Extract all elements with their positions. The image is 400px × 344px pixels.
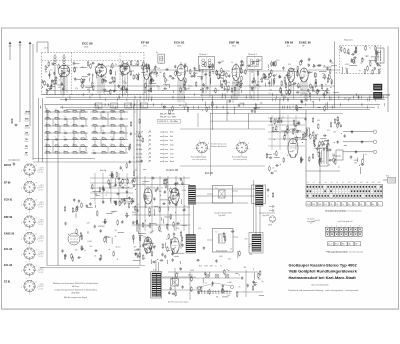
svg-text:5,9-7,4: 5,9-7,4 (25, 121, 29, 123)
junction (84, 111, 87, 114)
junction (238, 88, 241, 91)
bus crossing ticks (40, 93, 384, 109)
resistor (298, 83, 300, 89)
dial cord pulley 2 (230, 285, 233, 288)
svg-text:g2 85 V: g2 85 V (39, 286, 44, 288)
wire (118, 231, 124, 233)
capacitor (130, 132, 132, 136)
svg-text:220: 220 (95, 67, 98, 69)
wire (106, 238, 108, 243)
tube V7 out (288, 139, 298, 158)
junction (273, 138, 276, 141)
resistor (312, 117, 314, 123)
junction (147, 199, 150, 202)
resistor (254, 107, 256, 113)
capacitor (81, 81, 85, 83)
resistor (283, 157, 285, 163)
svg-text:2k: 2k (336, 72, 338, 74)
resistor (144, 194, 146, 200)
capacitor (13, 162, 15, 166)
wire (328, 74, 330, 78)
junction (87, 230, 90, 233)
resistor (234, 86, 236, 92)
junction (155, 75, 158, 78)
capacitor (124, 67, 128, 69)
svg-text:100: 100 (194, 68, 197, 70)
capacitor (46, 138, 50, 140)
resistor (319, 159, 321, 165)
resistor (180, 231, 182, 237)
capacitor (317, 64, 321, 66)
wire (251, 69, 253, 73)
capacitor (296, 130, 298, 134)
svg-text:2k: 2k (94, 256, 96, 258)
capacitor (184, 63, 186, 67)
junction (320, 83, 323, 86)
wire (98, 225, 105, 227)
wire (346, 69, 348, 74)
capacitor (77, 256, 81, 258)
resistor (297, 66, 299, 72)
svg-text:30p: 30p (55, 109, 57, 111)
svg-text:Ta1: Ta1 (96, 106, 99, 108)
wire (190, 269, 194, 271)
capacitor (182, 209, 186, 211)
wire tube pin (288, 82, 290, 96)
resistor (216, 70, 218, 76)
junction (223, 89, 226, 92)
wire interconnect h4 (240, 70, 286, 72)
wire right edge (387, 46, 389, 112)
dial scale ticks (197, 290, 232, 294)
junction (139, 245, 142, 248)
resistor (212, 63, 214, 69)
wire interconnect h2 (150, 69, 177, 71)
wire inter-row (113, 133, 115, 140)
resistor (143, 61, 145, 67)
svg-text:a10: a10 (360, 182, 363, 184)
svg-text:47k: 47k (327, 130, 330, 132)
svg-text:a 170 V: a 170 V (39, 167, 44, 169)
wire inter-row (85, 133, 87, 140)
resistor (58, 64, 60, 70)
resistor (273, 79, 275, 85)
svg-text:150-350: 150-350 (25, 135, 30, 137)
resistor (221, 68, 223, 74)
capacitor (144, 65, 148, 67)
capacitor (252, 80, 254, 84)
junction (94, 103, 97, 106)
resistor (370, 61, 372, 67)
svg-text:0,1: 0,1 (125, 187, 127, 189)
junction (270, 219, 273, 222)
svg-text:5k: 5k (239, 287, 241, 289)
junction (105, 194, 108, 197)
resistor (372, 69, 374, 75)
svg-text:a2: a2 (313, 182, 315, 184)
svg-text:0,5M: 0,5M (345, 52, 349, 54)
wire (296, 130, 301, 132)
svg-text:100: 100 (354, 162, 357, 164)
capacitor (115, 183, 117, 187)
svg-text:100: 100 (258, 278, 261, 280)
capacitor (176, 70, 178, 74)
resistor (112, 63, 114, 69)
resistor (231, 87, 233, 93)
junction (199, 88, 202, 91)
resistor (327, 139, 329, 145)
resistor (149, 223, 151, 229)
capacitor (298, 122, 300, 126)
wire (240, 102, 245, 104)
wire (313, 101, 315, 108)
junction (162, 105, 165, 108)
junction (134, 188, 137, 191)
wire (225, 80, 227, 87)
amp wiring grid (132, 176, 190, 231)
output terminal A (373, 130, 376, 133)
wire inter-row (125, 126, 127, 133)
wire (231, 68, 236, 70)
wire (188, 85, 192, 87)
capacitor (251, 110, 253, 114)
junction (248, 245, 251, 248)
junction (39, 106, 42, 109)
svg-text:Großsuper Kassini-Stereo Typ 4: Großsuper Kassini-Stereo Typ 4002 (289, 263, 358, 268)
wire (173, 90, 175, 93)
wire between output stages 3 (196, 202, 248, 204)
junction (271, 220, 274, 223)
svg-text:Alle Messungen ohne Signal: Alle Messungen ohne Signal (64, 296, 87, 299)
svg-text:220: 220 (228, 258, 231, 260)
wire (114, 84, 116, 92)
wire (236, 70, 238, 78)
svg-text:EABC 80: EABC 80 (4, 233, 15, 236)
wire (331, 81, 333, 84)
svg-text:Ta3: Ta3 (126, 106, 129, 108)
svg-text:Lack: Lack (170, 157, 174, 159)
far left marks B (8, 159, 20, 161)
resistor (150, 87, 152, 93)
svg-text:(von oben gesehen): (von oben gesehen) (348, 210, 363, 212)
svg-text:1n: 1n (74, 211, 76, 213)
capacitor (374, 67, 376, 71)
svg-text:k 2,1 V: k 2,1 V (39, 289, 44, 291)
svg-text:1n: 1n (165, 85, 167, 87)
junction (372, 93, 375, 96)
wire (141, 72, 145, 74)
resistor (87, 61, 89, 67)
capacitor (164, 88, 168, 90)
resistor (218, 74, 220, 80)
junction (305, 98, 308, 101)
wire (291, 71, 299, 73)
junction (58, 125, 61, 128)
resistor (134, 205, 136, 211)
wire (197, 75, 203, 77)
svg-text:g2 85 V: g2 85 V (39, 270, 44, 272)
svg-text:UKW: UKW (307, 204, 311, 206)
svg-text:0,5M: 0,5M (291, 69, 295, 71)
capacitor (170, 287, 172, 291)
svg-text:1n: 1n (322, 90, 324, 92)
svg-text:„Mit Taste“: „Mit Taste“ (72, 285, 80, 288)
junction (273, 219, 276, 222)
resistor (154, 68, 156, 74)
junction (41, 85, 44, 88)
wire (220, 80, 222, 87)
resistor (100, 254, 102, 260)
wire (188, 274, 193, 276)
wire (75, 79, 80, 81)
filter network box F1 (320, 148, 329, 166)
wire (174, 255, 179, 257)
svg-text:Hö: Hö (360, 204, 362, 206)
resistor (326, 88, 328, 94)
capacitor (134, 253, 138, 255)
wire (235, 273, 238, 275)
wire (151, 259, 153, 264)
transformer lead right (162, 276, 197, 278)
wire (296, 69, 298, 77)
wire (110, 198, 112, 202)
junction (80, 246, 83, 249)
capacitor (208, 66, 212, 68)
capacitor (338, 121, 340, 125)
svg-text:2k: 2k (137, 204, 139, 206)
capacitor (164, 190, 166, 194)
resistor (224, 269, 226, 275)
junction (340, 132, 343, 135)
capacitor (265, 75, 267, 79)
waveband switch bank (25, 109, 129, 157)
wire (342, 67, 344, 74)
junction (114, 152, 117, 155)
svg-text:VEB Goldpfeil Rundfunkgerätewe: VEB Goldpfeil Rundfunkgerätewerk (289, 268, 358, 273)
resistor (111, 172, 113, 178)
resistor (376, 50, 378, 56)
capacitor (212, 282, 214, 286)
capacitor (102, 132, 106, 134)
resistor (55, 79, 57, 85)
junction (204, 101, 207, 104)
junction (267, 68, 270, 71)
capacitor (307, 89, 309, 93)
capacitor (47, 83, 49, 87)
junction (92, 82, 95, 85)
svg-text:2k: 2k (272, 167, 274, 169)
junction (256, 60, 259, 63)
junction (76, 138, 79, 141)
wire below switch bank (33, 161, 140, 163)
capacitor (174, 182, 176, 186)
resistor (146, 67, 148, 73)
resistor (115, 200, 117, 206)
resistor (181, 236, 183, 242)
tube V9a (144, 237, 152, 253)
junction (76, 111, 79, 114)
IF transformer Bd1 (198, 56, 214, 69)
junction (245, 96, 248, 99)
transformer winding (striped) (157, 273, 161, 297)
capacitor (317, 89, 319, 93)
svg-text:Typ 4002: Typ 4002 (218, 215, 225, 217)
svg-text:1: 1 (209, 149, 210, 151)
tube V9b (171, 238, 179, 254)
wire tube pin (293, 82, 295, 99)
capacitor (181, 182, 183, 186)
resistor (344, 48, 346, 54)
resistor (131, 199, 133, 205)
svg-text:Export-Modell: Export-Modell (216, 249, 228, 252)
capacitor (181, 285, 183, 289)
resistor (142, 137, 144, 143)
svg-text:25p: 25p (134, 222, 137, 224)
junction (323, 96, 326, 99)
wire (371, 56, 379, 58)
svg-text:30p: 30p (73, 130, 75, 132)
svg-text:1n: 1n (50, 69, 52, 71)
junction (334, 158, 337, 161)
volume pot P1 (307, 128, 310, 136)
capacitor (123, 198, 125, 202)
junction (96, 111, 99, 114)
junction (329, 86, 332, 89)
junction (360, 103, 363, 106)
resistor (337, 122, 339, 128)
supply bus 1 (42, 94, 390, 96)
junction (274, 128, 277, 131)
wire (109, 90, 117, 92)
wire (150, 223, 156, 225)
capacitor (300, 99, 302, 103)
tuner internal divider (70, 53, 72, 95)
capacitor (247, 65, 251, 67)
supply bus 3 (60, 99, 385, 101)
capacitor (272, 74, 276, 76)
svg-text:ECL 86: ECL 86 (4, 264, 13, 267)
capacitor (121, 87, 123, 91)
resistor (137, 60, 139, 66)
svg-text:1n: 1n (184, 209, 186, 211)
capacitor (180, 267, 182, 271)
svg-text:47k: 47k (134, 247, 137, 249)
resistor (165, 77, 167, 83)
dial cord run (200, 283, 231, 287)
svg-text:Mo: Mo (348, 204, 350, 206)
capacitor (204, 73, 208, 75)
resistor (236, 292, 238, 298)
junction (382, 96, 385, 99)
wire inter-row (73, 119, 75, 126)
junction (67, 152, 70, 155)
wire (150, 85, 152, 92)
wire inter-row (125, 147, 127, 154)
wire (316, 89, 319, 91)
resistor (240, 81, 242, 87)
tape output arrow 1 (269, 205, 274, 208)
capacitor (375, 51, 377, 55)
svg-text:25p: 25p (336, 120, 339, 122)
svg-text:ECL 86: ECL 86 (205, 172, 214, 175)
svg-text:ECH 81: ECH 81 (4, 199, 13, 202)
capacitor (235, 84, 239, 86)
svg-text:1n: 1n (59, 80, 61, 82)
speaker terminal row (328, 242, 361, 246)
wire (96, 72, 98, 79)
wire inter-row (120, 140, 122, 147)
wire (91, 74, 93, 82)
wire (194, 70, 201, 72)
junction (242, 103, 245, 106)
svg-text:Typ 4002: Typ 4002 (262, 215, 269, 217)
junction (67, 145, 70, 148)
svg-text:EM 84: EM 84 (4, 164, 12, 167)
resistor (110, 69, 112, 75)
svg-text:Ba: Ba (354, 204, 356, 206)
wire tube pin (302, 82, 304, 95)
capacitor (103, 78, 105, 82)
wire tube pin (253, 70, 255, 101)
wire (235, 63, 237, 65)
wire tube pin (146, 80, 148, 100)
capacitor (114, 200, 116, 204)
resistor (139, 133, 141, 139)
wire (138, 233, 146, 235)
capacitor (304, 117, 306, 121)
svg-text:Dreh: Dreh (170, 153, 174, 156)
AM input coil L2 (63, 54, 65, 95)
svg-text:Ta2: Ta2 (112, 106, 115, 108)
resistor (319, 157, 321, 163)
wire (267, 154, 272, 156)
capacitor (318, 64, 322, 66)
junction (76, 132, 79, 135)
wire (180, 62, 182, 65)
pointer note (310, 220, 320, 224)
wire (241, 90, 243, 93)
wire inter-row (120, 112, 122, 119)
transformer winding (striped) (152, 273, 156, 297)
capacitor (293, 82, 297, 84)
svg-text:2k: 2k (360, 63, 362, 65)
capacitor (193, 67, 195, 71)
capacitor (109, 82, 113, 84)
wire (123, 197, 128, 199)
junction (105, 138, 108, 141)
resistor (325, 90, 327, 96)
junction (228, 100, 231, 103)
speaker network box upper (207, 186, 238, 204)
transformer winding (striped) (186, 235, 196, 254)
junction (84, 132, 87, 135)
capacitor (351, 60, 355, 62)
resistor (136, 74, 138, 80)
junction (104, 76, 107, 79)
wire (347, 69, 349, 74)
svg-text:5p: 5p (292, 128, 294, 130)
capacitor (221, 288, 223, 292)
wire inter-row (66, 119, 68, 126)
wire interconnect h6 (80, 85, 335, 87)
tube socket diagram ECL 866 (21, 262, 38, 280)
capacitor (351, 53, 355, 55)
capacitor (97, 63, 101, 65)
junction (84, 138, 87, 141)
wire tube pin (64, 77, 66, 91)
capacitor (252, 61, 254, 65)
capacitor (118, 85, 120, 89)
